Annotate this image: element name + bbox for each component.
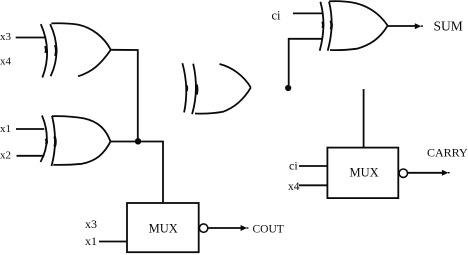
svg-text:x3: x3: [0, 31, 12, 43]
mux M1 box: [127, 203, 199, 252]
xor gate XOR4 (ci input, top-right): [320, 1, 388, 51]
wire ci to M2: [299, 165, 327, 167]
arrowhead SUM: [415, 23, 422, 29]
mux M2 box: [327, 148, 398, 199]
svg-text:ci: ci: [272, 9, 282, 23]
svg-text:x3: x3: [85, 217, 97, 231]
wire XOR4 output to SUM: [388, 25, 416, 27]
wire x2 to XOR2: [17, 155, 45, 157]
xor gate XOR3 (floating, centre): [182, 63, 250, 114]
svg-text:x4: x4: [288, 181, 300, 193]
arrowhead COUT: [241, 225, 247, 231]
svg-text:CARRY: CARRY: [427, 145, 468, 159]
svg-text:x4: x4: [0, 56, 12, 68]
svg-text:COUT: COUT: [253, 224, 284, 236]
wire x3 to XOR1: [16, 37, 46, 39]
wire x1 to M1: [99, 241, 127, 243]
xor gate XOR2 (x1 xor x2, mid-left): [41, 116, 111, 167]
junction dot node A: [135, 138, 141, 144]
xor gate XOR1 (x3 xor x4, top-left): [41, 23, 111, 77]
svg-text:MUX: MUX: [149, 221, 178, 235]
inverter bubble M2: [399, 169, 407, 177]
svg-text:x2: x2: [0, 150, 11, 162]
svg-text:x1: x1: [0, 123, 11, 135]
wire M1 output: [208, 227, 241, 229]
wire ci to XOR4 upper input: [293, 12, 323, 14]
terminal dot node B: [285, 85, 291, 91]
svg-text:x1: x1: [85, 234, 97, 248]
wire XOR4 lower input from node B: [289, 39, 323, 85]
wire x4 to M2: [299, 184, 327, 186]
wire XOR2 output through junction to MUX1 select: [111, 142, 164, 204]
inverter bubble M1: [199, 224, 207, 232]
wire select line into MUX2: [363, 89, 365, 148]
wire XOR1 output down to junction: [111, 50, 138, 142]
svg-text:SUM: SUM: [434, 19, 463, 34]
arrowhead CARRY: [442, 170, 449, 176]
svg-text:ci: ci: [289, 159, 298, 173]
svg-text:MUX: MUX: [350, 166, 379, 180]
wire x1 to XOR2: [16, 128, 44, 130]
wire M2 output: [408, 172, 443, 174]
